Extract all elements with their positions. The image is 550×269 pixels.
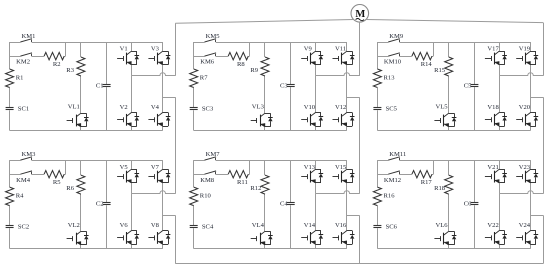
svg-text:KM11: KM11 [389,151,406,158]
wire right half-bridge leg [346,42,348,131]
wire motor lead right [366,20,543,23]
contactor KM9 [388,33,404,42]
svg-text:VL1: VL1 [68,104,80,111]
svg-text:R12: R12 [250,185,261,192]
svg-text:R17: R17 [421,179,433,186]
supercapacitor SC2 [6,223,30,230]
wire top rail [194,42,347,44]
svg-text:R2: R2 [53,61,61,68]
wire dc-link leg [474,42,476,131]
IGBT V24 [516,222,538,245]
contactor KM11 [388,151,406,160]
IGBT V23 [516,164,538,183]
wire neutral bus [175,263,543,265]
svg-text:V14: V14 [304,222,316,229]
svg-text:R8: R8 [237,61,245,68]
svg-text:V17: V17 [487,46,499,53]
wire series link column 1 [175,97,177,194]
contactor KM2 [16,53,32,66]
wire dc-link leg [106,160,108,249]
resistor R14 [412,52,432,68]
resistor R5 [44,171,64,187]
svg-text:KM7: KM7 [206,151,221,158]
wire chopper leg [80,160,82,249]
svg-text:V11: V11 [335,46,346,53]
IGBT V13 [301,164,323,183]
svg-text:C1: C1 [96,82,104,89]
wire phase bus column 1 [175,23,177,75]
wire bottom rail [194,248,347,250]
svg-text:C4: C4 [280,200,288,207]
resistor R7 [190,69,208,88]
svg-text:C2: C2 [96,200,104,207]
wire phase bus column 2 [359,22,361,76]
wire bottom rail [10,248,163,250]
svg-text:KM1: KM1 [22,33,36,40]
wire neutral drop column 2 [359,215,361,263]
svg-text:C5: C5 [464,82,472,89]
svg-text:R13: R13 [384,75,396,82]
capacitor C6 [464,200,479,207]
resistor R11 [228,171,248,187]
svg-text:V10: V10 [304,104,316,111]
svg-text:KM6: KM6 [200,59,215,66]
wire bridge B-terminal link [347,215,360,217]
IGBT V5 [117,164,139,183]
IGBT V2 [117,104,139,127]
wire top rail [194,160,347,162]
svg-text:R11: R11 [237,179,248,186]
svg-text:R6: R6 [66,185,74,192]
svg-text:R9: R9 [250,67,258,74]
svg-text:V12: V12 [335,104,346,111]
IGBT V8 [148,222,170,245]
IGBT V22 [485,222,507,245]
wire top rail [377,160,530,162]
IGBT chopper VL3 [251,104,273,127]
svg-text:C6: C6 [464,200,472,207]
wire top rail [10,160,163,162]
svg-text:V20: V20 [519,104,531,111]
wire dc-link leg [106,42,108,131]
contactor KM4 [16,171,32,184]
resistor R17 [412,171,432,187]
supercapacitor SC5 [373,105,397,112]
svg-text:R3: R3 [66,67,74,74]
svg-text:VL6: VL6 [436,222,449,229]
svg-text:C3: C3 [280,82,288,89]
IGBT V9 [301,46,323,65]
wire bridge B-terminal link [347,97,360,99]
svg-text:R18: R18 [434,185,446,192]
wire motor lead left [175,20,353,24]
svg-text:SC5: SC5 [386,105,398,112]
svg-text:SC3: SC3 [202,105,214,112]
supercapacitor SC1 [6,105,30,112]
svg-text:V19: V19 [519,46,531,53]
capacitor C4 [280,200,295,207]
contactor KM1 [20,33,35,42]
svg-text:KM12: KM12 [384,177,401,184]
IGBT V1 [117,46,139,65]
wire AC output with crossover hop [316,191,360,194]
IGBT V7 [148,164,170,183]
resistor R10 [190,187,212,206]
wire bridge B-terminal link [163,215,176,217]
wire precharge branch [194,42,250,57]
contactor KM8 [200,171,216,184]
wire bottom rail [10,130,163,132]
motor M [351,5,369,23]
supercapacitor SC6 [373,223,397,230]
svg-text:V2: V2 [120,104,128,111]
wire AC output with crossover hop [499,191,543,194]
capacitor C2 [96,200,111,207]
IGBT V4 [148,104,170,127]
capacitor C5 [464,82,479,89]
wire chopper leg [448,42,450,131]
wire left leg [377,42,379,131]
svg-text:V3: V3 [151,46,160,53]
wire bridge B-terminal link [531,215,544,217]
contactor KM7 [205,151,221,160]
svg-text:SC2: SC2 [18,223,29,230]
svg-text:R10: R10 [200,193,212,200]
resistor R8 [228,52,248,68]
IGBT V21 [485,164,507,183]
IGBT chopper VL4 [251,222,273,245]
wire dc-link leg [290,160,292,249]
IGBT V16 [333,222,355,245]
svg-text:R7: R7 [200,75,208,82]
svg-text:V16: V16 [335,222,347,229]
wire bridge B-terminal link [163,97,176,99]
contactor KM6 [200,53,216,66]
IGBT chopper VL1 [67,104,89,127]
wire left half-bridge leg [131,42,133,131]
IGBT V17 [485,46,507,65]
svg-text:KM2: KM2 [16,59,30,66]
wire AC output with crossover hop [499,73,543,76]
svg-text:VL4: VL4 [252,222,265,229]
supercapacitor SC3 [190,105,214,112]
wire left leg [193,160,195,249]
capacitor C1 [96,82,111,89]
wire dc-link leg [474,160,476,249]
svg-text:SC1: SC1 [18,105,29,112]
wire series link column 3 [543,97,545,194]
svg-text:KM5: KM5 [206,33,221,40]
IGBT chopper VL5 [434,104,456,127]
svg-text:SC4: SC4 [202,223,214,230]
wire left half-bridge leg [499,42,501,131]
wire left half-bridge leg [499,160,501,249]
wire bottom rail [377,130,530,132]
resistor R3 [66,57,85,76]
wire AC output with crossover hop [131,191,175,194]
svg-text:V4: V4 [151,104,160,111]
svg-text:V5: V5 [120,164,129,171]
wire precharge branch [194,160,250,174]
wire series link column 2 [359,97,361,194]
svg-text:VL5: VL5 [436,104,449,111]
wire bridge B-terminal link [531,97,544,99]
svg-text:V23: V23 [519,164,531,171]
svg-text:V13: V13 [304,164,316,171]
svg-text:V1: V1 [120,46,128,53]
svg-text:V9: V9 [304,46,313,53]
wire right half-bridge leg [162,160,164,249]
wire left leg [9,42,11,131]
resistor R15 [434,57,453,76]
resistor R12 [250,175,269,194]
contactor KM3 [20,151,36,160]
IGBT chopper VL6 [434,222,456,245]
svg-text:KM9: KM9 [389,33,404,40]
capacitor C3 [280,82,295,89]
IGBT V6 [117,222,139,245]
wire left half-bridge leg [315,160,317,249]
wire precharge branch [377,160,433,174]
resistor R4 [6,187,24,206]
wire precharge branch [377,42,433,57]
IGBT chopper VL2 [67,222,89,245]
svg-text:V7: V7 [151,164,160,171]
wire chopper leg [264,42,266,131]
wire top rail [377,42,530,44]
contactor KM12 [384,171,401,184]
svg-text:R16: R16 [384,193,396,200]
svg-text:R14: R14 [421,61,433,68]
contactor KM10 [384,53,402,66]
IGBT V12 [333,104,355,127]
wire phase bus column 3 [543,23,545,76]
wire right half-bridge leg [530,160,532,249]
svg-text:V18: V18 [487,104,499,111]
svg-text:V8: V8 [151,222,160,229]
IGBT V10 [301,104,323,127]
supercapacitor SC4 [190,223,214,230]
resistor R1 [6,69,24,88]
wire AC output with crossover hop [131,73,175,76]
IGBT V3 [148,46,170,65]
svg-text:KM3: KM3 [22,151,37,158]
resistor R13 [373,69,395,88]
wire left leg [193,42,195,131]
svg-text:SC6: SC6 [386,223,398,230]
wire right half-bridge leg [346,160,348,249]
wire neutral drop column 1 [175,215,177,263]
wire left leg [377,160,379,249]
contactor KM5 [205,33,221,42]
resistor R6 [66,175,85,194]
wire top rail [10,42,163,44]
svg-text:VL2: VL2 [68,222,80,229]
wire AC output with crossover hop [316,73,360,76]
IGBT V14 [301,222,323,245]
svg-text:V21: V21 [487,164,498,171]
svg-text:R5: R5 [53,179,61,186]
wire precharge branch [10,42,66,57]
svg-text:R4: R4 [16,193,24,200]
wire bottom rail [377,248,530,250]
resistor R16 [373,187,395,206]
wire left half-bridge leg [131,160,133,249]
IGBT V11 [333,46,355,65]
svg-text:KM10: KM10 [384,59,402,66]
wire left leg [9,160,11,249]
resistor R18 [434,175,453,194]
wire bottom rail [194,130,347,132]
svg-text:VL3: VL3 [252,104,265,111]
wire precharge branch [10,160,66,174]
svg-text:V6: V6 [120,222,129,229]
wire chopper leg [80,42,82,131]
svg-text:V15: V15 [335,164,347,171]
svg-text:KM4: KM4 [16,177,31,184]
wire right half-bridge leg [530,42,532,131]
IGBT V15 [333,164,355,183]
resistor R2 [44,52,64,68]
IGBT V19 [516,46,538,65]
IGBT V20 [516,104,538,127]
svg-text:R15: R15 [434,67,446,74]
wire dc-link leg [290,42,292,131]
svg-text:V24: V24 [519,222,531,229]
svg-text:V22: V22 [487,222,498,229]
resistor R9 [250,57,269,76]
wire chopper leg [448,160,450,249]
wire chopper leg [264,160,266,249]
svg-text:R1: R1 [16,75,24,82]
wire right half-bridge leg [162,42,164,131]
wire left half-bridge leg [315,42,317,131]
wire neutral drop column 3 [543,215,545,263]
svg-text:KM8: KM8 [200,177,215,184]
IGBT V18 [485,104,507,127]
